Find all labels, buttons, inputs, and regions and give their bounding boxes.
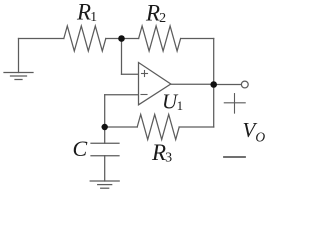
plus sign (output polarity) <box>224 94 245 114</box>
capacitor C plates <box>91 143 119 156</box>
wire op-amp output <box>171 83 214 85</box>
wire R2 to top-right corner <box>181 38 214 40</box>
svg-text:C: C <box>73 136 88 161</box>
wire corner down to output node <box>213 39 215 85</box>
node B junction dot <box>102 124 108 130</box>
wire - input down to node B <box>104 95 106 127</box>
wire R3 to right riser <box>179 126 214 128</box>
wire node B to R3 <box>105 126 138 128</box>
wire ground to R1 <box>19 38 64 40</box>
wire node A to R2 <box>122 38 139 40</box>
ground (left, input) <box>4 39 33 80</box>
wire node A down to + input <box>121 39 123 75</box>
wire riser up to output node <box>213 85 215 128</box>
ground (bottom, capacitor) <box>90 181 119 188</box>
op-amp + input marker <box>142 71 148 77</box>
resistor R2 <box>139 26 181 51</box>
resistor R3 <box>137 115 179 140</box>
wire capacitor to ground <box>104 156 106 181</box>
resistor R1 <box>64 26 106 51</box>
output terminal circle <box>241 81 248 88</box>
op-amp U1 triangle <box>139 63 171 105</box>
wire node B down to capacitor <box>104 127 106 143</box>
minus sign (output polarity) <box>224 156 245 158</box>
node A junction dot <box>118 35 125 42</box>
wire output node to terminal <box>214 84 242 86</box>
op-amp - input marker <box>141 94 147 96</box>
wire to op-amp + input <box>122 73 139 75</box>
wire op-amp - input <box>105 94 139 96</box>
wire R1 to node A <box>106 38 122 40</box>
output node junction dot <box>210 81 217 88</box>
